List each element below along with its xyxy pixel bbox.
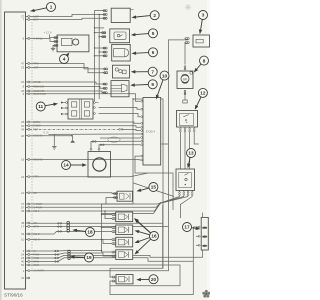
- wire pin1 AA PWR right riser: [30, 40, 188, 271]
- pin 35 INJ 1: [21, 209, 40, 213]
- svg-text:ST/90/16: ST/90/16: [4, 293, 23, 298]
- callout 19: [70, 253, 94, 262]
- svg-text:19: 19: [86, 255, 92, 260]
- wire box17 pin2 stub: [196, 235, 199, 237]
- callout 1: [30, 2, 56, 12]
- wire pump15 pin2 feed: [102, 198, 118, 205]
- wire right bus A: [110, 99, 163, 277]
- valve 20: [111, 275, 133, 284]
- ground (pin20 branch): [70, 141, 75, 143]
- wire injectorD top tap: [102, 251, 112, 253]
- connector 11: [61, 99, 99, 119]
- idle air valve 14: [88, 148, 111, 177]
- callout 18: [72, 228, 94, 237]
- wire injectorA top tap: [102, 214, 112, 216]
- wire pin21 SC to pump15: [30, 192, 117, 195]
- ignition coil 13: [176, 169, 195, 197]
- pin 40 GND: [21, 260, 39, 264]
- pin 2 GND/CAM: [23, 92, 47, 96]
- wire relay12 terminal to coil13 b: [184, 132, 186, 169]
- wire node to rail4: [154, 203, 161, 214]
- svg-text:17: 17: [21, 225, 25, 229]
- callout 12: [195, 88, 208, 109]
- valve 15: [113, 191, 133, 201]
- svg-text:2: 2: [153, 13, 156, 18]
- wire injectorC top tap: [102, 239, 112, 241]
- shield coil 19: [68, 250, 71, 259]
- svg-text:20: 20: [21, 134, 25, 138]
- svg-text:5: 5: [152, 31, 155, 36]
- air flow meter 9: [102, 81, 129, 97]
- callout 5: [131, 29, 158, 38]
- pin 50 GND: [21, 263, 39, 267]
- callout 16 arrow: [138, 222, 151, 233]
- svg-text:35: 35: [21, 209, 25, 213]
- svg-text:10: 10: [162, 73, 168, 78]
- svg-text:50: 50: [21, 263, 25, 267]
- svg-text:E DIS 4: E DIS 4: [146, 129, 155, 133]
- callout 15: [137, 183, 158, 192]
- pin 1 AA PWR: [23, 269, 44, 273]
- harness boundary dashed: [31, 16, 33, 271]
- pin 34 FSP: [21, 127, 39, 131]
- pin 7 ECT: [23, 18, 39, 22]
- callout 17: [183, 223, 201, 232]
- pin 16 GND/IO: [21, 158, 43, 162]
- pin 17 STO: [21, 225, 39, 229]
- pin 10 INJ 3: [21, 238, 40, 242]
- svg-text:23: 23: [21, 66, 25, 70]
- wire spark lead c to node: [161, 197, 188, 204]
- pin 33 stub: [21, 276, 30, 280]
- svg-text:16: 16: [21, 158, 25, 162]
- svg-text:16: 16: [151, 234, 157, 239]
- sensor 17: [198, 213, 208, 258]
- wire lamp4 to ground: [53, 45, 57, 48]
- wire pin23 POD: [30, 255, 203, 258]
- ground (lamp 4): [51, 48, 55, 51]
- pin 20 GND/IN: [21, 134, 43, 138]
- pin 57 S PWR: [21, 205, 42, 209]
- callout 20: [136, 275, 158, 284]
- wire valve14 right pin up: [99, 145, 140, 149]
- pin 47 TPS: [21, 62, 39, 66]
- pin 27 MAP: [21, 15, 39, 19]
- svg-text:22: 22: [21, 175, 25, 179]
- pin 22 FPR: [21, 175, 39, 179]
- wire switch5 pin1 tap: [95, 32, 107, 34]
- pin 28 E/DW: [21, 120, 41, 124]
- svg-text:26: 26: [21, 80, 25, 84]
- paper background: [0, 0, 210, 300]
- wire bus V1 from sensor2: [95, 11, 107, 101]
- wire pin8 REM/CO to meter 9: [30, 87, 106, 89]
- svg-text:12: 12: [200, 91, 206, 96]
- svg-text:20: 20: [151, 277, 157, 282]
- wire shield upper: [100, 137, 140, 139]
- wire pin34 FSP dash-dot: [30, 128, 119, 130]
- wire spark lead d to node: [180, 197, 192, 219]
- wire pin23 ACT to sensor 7: [30, 68, 106, 73]
- relay 12: [177, 111, 198, 132]
- wire valve14 left pin up: [91, 141, 140, 148]
- callout 13: [187, 149, 196, 169]
- wire pin16 GND/IO to module: [30, 159, 140, 161]
- wire pin24 POO: [30, 253, 112, 256]
- pin 23 ACT: [21, 66, 39, 70]
- wire pin35 INJ1: [30, 210, 155, 212]
- wire pin50 GND loop: [30, 265, 180, 286]
- switch 5: [101, 29, 130, 43]
- svg-text:10: 10: [21, 238, 25, 242]
- wire module right edge to coil area: [161, 143, 169, 145]
- wire pin48 STI: [30, 222, 163, 224]
- wire valve6 pin3 tap: [95, 55, 107, 57]
- wire valve6 pin2 tap: [99, 51, 106, 53]
- wire module pin to y173 rail: [135, 156, 148, 173]
- pin 3 IA: [23, 249, 36, 253]
- sensor 2 (MAP sensor): [102, 8, 133, 22]
- pin 23 POD: [21, 256, 39, 260]
- wire pin17 STO: [30, 226, 169, 228]
- callout 11: [36, 102, 58, 111]
- wire bus V2: [98, 14, 100, 99]
- pin 30 E/MW: [21, 124, 41, 128]
- wire ground stem x54: [53, 134, 55, 146]
- wire node to rail2: [156, 203, 161, 207]
- svg-text:33: 33: [21, 276, 25, 280]
- pin 48 STI: [21, 221, 38, 225]
- pin 8 REM/CO: [23, 85, 44, 89]
- wire pin46 GND/AIR to meter 9: [30, 91, 106, 93]
- wire spark lead a to node: [161, 197, 180, 204]
- injector 16-2: [111, 225, 133, 235]
- svg-text:3: 3: [202, 13, 205, 18]
- svg-text:1: 1: [50, 5, 53, 10]
- valve 6: [102, 44, 130, 61]
- ground (E18 wire): [52, 147, 56, 150]
- callout 3: [199, 11, 208, 35]
- wire switch5 pin2 tap: [99, 36, 106, 38]
- wire diagonal texture: [134, 183, 175, 197]
- wire pump8 to relay12: [184, 92, 186, 100]
- wire pin6 V MALL to lamp 4: [30, 39, 57, 42]
- injector 16-4: [111, 250, 133, 260]
- wire connector11 to module pin3: [99, 114, 141, 117]
- callout 16 arrow: [138, 239, 151, 251]
- junction dots: [101, 214, 102, 215]
- wire pin7 ECT to sensor 2: [30, 18, 106, 19]
- svg-text:+ 12 V: + 12 V: [44, 31, 52, 35]
- wire spark rail4: [102, 213, 154, 215]
- svg-text:18: 18: [87, 230, 93, 235]
- wire pin47 TPS to sensor 7: [30, 64, 106, 69]
- wire valve6 pin1 tap: [95, 47, 107, 49]
- inline terminal: [183, 100, 187, 103]
- wire spark lead b to node: [161, 197, 184, 204]
- pin 39 INJ 2: [21, 232, 40, 236]
- svg-text:34: 34: [21, 128, 25, 132]
- ECU connector strip: [5, 12, 26, 289]
- fuel pump 8: [177, 66, 193, 95]
- wire bottom y268 segment: [162, 205, 164, 268]
- pin 37 V PWR: [21, 202, 42, 206]
- wire box20 pins: [110, 276, 112, 278]
- callout 8: [194, 56, 209, 72]
- wire box17 pin1 riser: [193, 227, 199, 261]
- wire pin57 SPWR: [30, 206, 156, 208]
- wire pin26 IGN/E to meter 9: [30, 82, 106, 84]
- pin 26 IGN/E: [21, 80, 41, 84]
- sensor 7: [103, 65, 130, 78]
- wire pin39 INJ2: [30, 231, 112, 234]
- svg-text:13: 13: [188, 151, 194, 156]
- pin 24 POO: [21, 253, 39, 257]
- wire injectorB top tap: [102, 227, 112, 229]
- svg-text:21: 21: [21, 191, 25, 195]
- inline connectors: [92, 141, 94, 143]
- wire supply spur: [95, 27, 105, 29]
- svg-text:14: 14: [63, 163, 69, 168]
- wire relay12 terminal d: [194, 132, 199, 144]
- compass mark: [202, 290, 210, 298]
- wire +12V feed to lamp 4: [50, 35, 58, 38]
- faint mark top right: [185, 4, 191, 11]
- callout 16 arrow: [139, 238, 150, 242]
- svg-text:39: 39: [21, 232, 25, 236]
- callout 10: [156, 71, 169, 99]
- indicator 4 with +12V: [44, 31, 89, 52]
- injector 16-1: [111, 212, 133, 222]
- wire pin10 INJ3: [30, 240, 112, 244]
- callout 7: [131, 67, 157, 76]
- wire box3 pin2 to pump8: [185, 43, 188, 64]
- wire node to rail3: [155, 203, 161, 211]
- svg-text:M: M: [183, 76, 186, 81]
- callout 2: [132, 11, 160, 20]
- callout 9: [130, 80, 157, 89]
- callout 4: [60, 53, 70, 64]
- callout 6: [132, 48, 158, 57]
- wire pin27 MAP to sensor 2: [30, 14, 106, 16]
- wire feed bus left of module: [102, 99, 134, 252]
- shield coil 18: [67, 221, 70, 232]
- svg-text:8: 8: [203, 58, 206, 63]
- svg-text:6: 6: [152, 50, 155, 55]
- wire pin28 to module: [30, 122, 140, 123]
- wire pin40 GND big loop: [30, 258, 194, 295]
- injector 16-3: [111, 237, 133, 247]
- svg-text:7: 7: [151, 69, 154, 74]
- wire connector11 to module pin2: [99, 108, 141, 110]
- wire box17 pin3 stub: [196, 244, 199, 246]
- wire pin20 GND/IN to ground: [30, 136, 73, 141]
- wire pin22 FPR diagonal: [30, 173, 173, 210]
- pin 46 GND/AIR: [21, 89, 44, 93]
- wire pin30 to module: [30, 126, 140, 128]
- inline connectors at coils: [55, 223, 62, 263]
- shield oval: [108, 137, 120, 142]
- ignition switch 3: [184, 35, 209, 47]
- svg-text:11: 11: [38, 104, 43, 109]
- wire INJ1 branch: [105, 211, 112, 219]
- svg-text:4: 4: [63, 57, 66, 62]
- callout 14: [62, 161, 87, 170]
- callout 16 arrow: [139, 232, 150, 235]
- svg-text:9: 9: [151, 82, 154, 87]
- svg-text:17: 17: [184, 225, 190, 230]
- wire pin2 GND/CAM to module: [30, 94, 140, 101]
- wire relay12 terminal to coil13 a: [179, 132, 181, 169]
- control module 10 E DIS 4: [141, 98, 161, 166]
- pin 21 SC: [21, 191, 37, 195]
- wire module pin y134: [49, 133, 141, 135]
- wire pin3 IA: [30, 250, 102, 252]
- svg-text:E 18: E 18: [44, 132, 50, 135]
- wire pin37 VPWR bus: [30, 203, 161, 204]
- pin 6 V MALL: [23, 37, 44, 41]
- callout 16: [134, 218, 159, 241]
- svg-text:15: 15: [151, 185, 157, 190]
- wire dashdot joint: [122, 129, 140, 130]
- wire relay12 terminal to coil13 c: [189, 132, 191, 169]
